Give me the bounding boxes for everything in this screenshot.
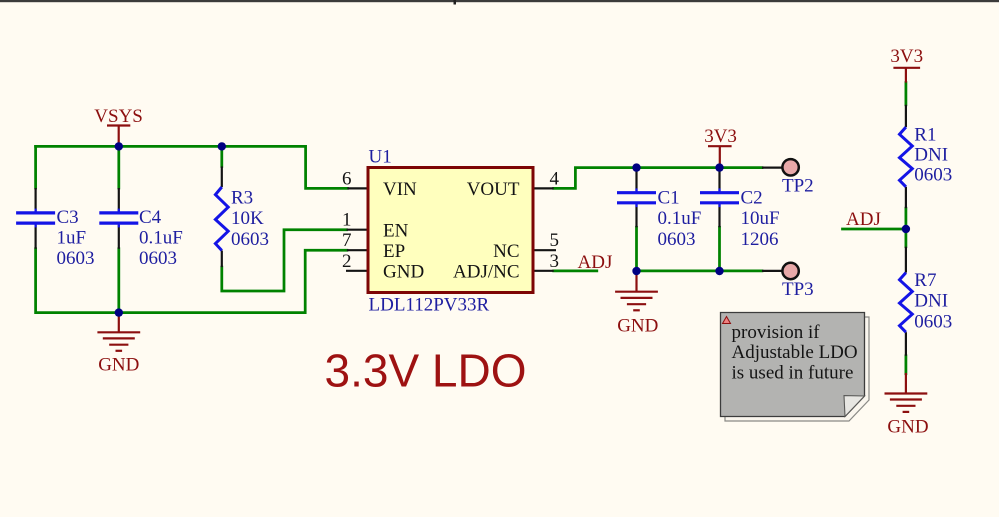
svg-text:5: 5 [550,230,560,251]
svg-text:10K: 10K [231,208,264,229]
svg-text:10uF: 10uF [741,208,780,229]
svg-text:R3: R3 [231,188,253,209]
svg-text:3: 3 [550,251,560,272]
svg-text:U1: U1 [369,147,392,168]
svg-text:3V3: 3V3 [890,46,923,67]
svg-text:ADJ: ADJ [846,209,881,230]
svg-text:DNI: DNI [914,291,948,312]
svg-text:GND: GND [887,417,928,438]
svg-text:0603: 0603 [914,165,952,186]
svg-text:VIN: VIN [383,179,417,200]
svg-text:ADJ: ADJ [578,252,613,273]
svg-text:3V3: 3V3 [704,126,737,147]
svg-text:R7: R7 [914,270,936,291]
svg-text:0603: 0603 [231,229,269,250]
svg-text:7: 7 [342,230,352,251]
svg-text:0603: 0603 [914,311,952,332]
svg-text:6: 6 [342,168,352,189]
svg-text:VSYS: VSYS [94,106,143,127]
svg-text:0603: 0603 [139,248,177,269]
svg-text:0603: 0603 [658,229,696,250]
svg-text:3.3V LDO: 3.3V LDO [325,345,527,397]
svg-text:1uF: 1uF [57,227,87,248]
svg-text:TP2: TP2 [782,176,814,197]
svg-text:2: 2 [342,251,352,272]
svg-text:C1: C1 [658,188,680,209]
svg-text:DNI: DNI [914,145,948,166]
svg-text:GND: GND [98,355,139,376]
svg-text:0603: 0603 [57,248,95,269]
svg-text:Adjustable LDO: Adjustable LDO [732,342,858,363]
svg-text:0.1uF: 0.1uF [139,227,183,248]
svg-text:NC: NC [493,241,519,262]
svg-text:1206: 1206 [741,229,779,250]
svg-text:VOUT: VOUT [467,179,520,200]
svg-text:R1: R1 [914,125,936,146]
svg-text:TP3: TP3 [782,279,814,300]
svg-text:provision if: provision if [732,322,821,343]
svg-text:EN: EN [383,220,409,241]
svg-text:is used in future: is used in future [732,362,854,383]
svg-text:GND: GND [383,262,424,283]
svg-text:GND: GND [617,316,658,337]
svg-text:C3: C3 [57,207,79,228]
svg-text:0.1uF: 0.1uF [658,208,702,229]
svg-text:LDL112PV33R: LDL112PV33R [369,294,490,315]
svg-text:C2: C2 [741,188,763,209]
svg-text:EP: EP [383,241,405,262]
svg-text:1: 1 [342,210,352,231]
svg-text:ADJ/NC: ADJ/NC [453,262,520,283]
svg-text:4: 4 [550,168,560,189]
svg-text:C4: C4 [139,207,162,228]
